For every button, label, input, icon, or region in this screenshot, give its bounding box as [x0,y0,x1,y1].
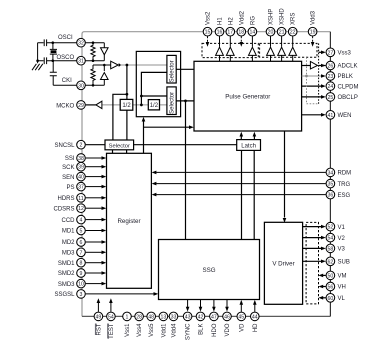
svg-text:38: 38 [78,156,84,162]
svg-text:Vdd1: Vdd1 [161,323,167,338]
svg-text:CKI: CKI [62,78,72,84]
svg-text:37: 37 [78,185,84,191]
svg-text:CCD: CCD [62,218,76,224]
svg-text:SYNC: SYNC [186,323,192,340]
svg-text:Register: Register [117,218,140,225]
svg-text:52: 52 [328,225,334,231]
svg-text:ESG: ESG [338,193,351,199]
svg-text:Latch: Latch [241,144,256,150]
svg-text:OSCO: OSCO [57,55,75,61]
svg-text:54: 54 [328,236,334,242]
svg-text:33: 33 [171,314,177,320]
svg-text:19: 19 [310,30,316,36]
svg-text:VH: VH [338,285,346,291]
svg-text:12: 12 [78,206,84,212]
svg-text:MD2: MD2 [62,240,75,246]
svg-text:1/2: 1/2 [150,103,159,109]
svg-text:WEN: WEN [338,113,352,119]
svg-text:47: 47 [211,314,217,320]
svg-text:Vdd4: Vdd4 [172,323,178,338]
svg-text:30: 30 [78,83,84,89]
svg-text:VD: VD [239,323,245,332]
svg-text:56: 56 [328,285,334,291]
svg-text:HD: HD [253,323,259,332]
svg-text:28: 28 [136,314,142,320]
svg-text:42: 42 [198,314,204,320]
svg-text:39: 39 [78,165,84,171]
svg-text:Vss5: Vss5 [149,323,155,337]
svg-text:34: 34 [328,170,334,176]
svg-text:RDM: RDM [338,171,352,177]
svg-text:Vss4: Vss4 [137,323,143,337]
svg-text:Vdd2: Vdd2 [239,10,245,25]
svg-text:58: 58 [328,246,334,252]
svg-text:SSG: SSG [202,267,215,274]
svg-text:HDRS: HDRS [57,196,74,202]
svg-text:1: 1 [126,314,129,320]
svg-text:Pulse Generator: Pulse Generator [225,93,270,100]
svg-text:40: 40 [78,175,84,181]
svg-text:26: 26 [328,64,334,70]
svg-text:5: 5 [80,229,83,235]
svg-text:11: 11 [78,196,83,202]
svg-text:H2: H2 [228,17,234,25]
svg-text:MD3: MD3 [62,251,75,257]
svg-text:SSI: SSI [65,156,75,162]
svg-text:60: 60 [328,296,334,302]
svg-text:3: 3 [80,292,83,298]
svg-text:23: 23 [328,74,334,80]
svg-text:62: 62 [328,259,334,265]
svg-text:32: 32 [78,41,84,47]
svg-text:25: 25 [328,95,334,101]
svg-text:13: 13 [161,314,167,320]
svg-text:7: 7 [80,250,83,256]
svg-text:MCKO: MCKO [56,103,74,109]
svg-text:PS: PS [66,185,74,191]
svg-text:HDO: HDO [212,323,218,337]
svg-text:Vss3: Vss3 [338,51,352,57]
svg-text:PBLK: PBLK [338,74,353,80]
svg-text:6: 6 [80,240,83,246]
svg-text:48: 48 [148,314,154,320]
svg-text:14: 14 [250,30,256,36]
svg-text:BLK: BLK [199,324,205,335]
svg-text:21: 21 [279,30,285,36]
svg-text:SMD1: SMD1 [58,261,75,267]
svg-text:15: 15 [205,30,211,36]
svg-text:MD1: MD1 [62,229,75,235]
svg-text:V Driver: V Driver [272,261,294,268]
svg-text:XSHP: XSHP [269,9,275,25]
svg-text:54: 54 [108,314,114,320]
svg-text:24: 24 [328,84,334,90]
svg-text:CDSRS: CDSRS [53,206,74,212]
svg-text:50: 50 [328,273,334,279]
svg-text:Vss1: Vss1 [125,323,131,337]
svg-text:43: 43 [185,314,191,320]
svg-text:44: 44 [252,314,258,320]
svg-text:TEST: TEST [109,323,115,339]
svg-text:45: 45 [238,314,244,320]
svg-text:1/2: 1/2 [122,103,131,109]
svg-text:Selector: Selector [170,92,176,114]
svg-text:31: 31 [78,59,84,65]
svg-text:Vss2: Vss2 [206,11,212,25]
svg-text:SMD2: SMD2 [58,271,75,277]
svg-text:XSHD: XSHD [280,8,286,25]
svg-text:20: 20 [268,30,274,36]
svg-text:V2: V2 [338,236,346,242]
svg-text:17: 17 [227,30,233,36]
svg-text:RST: RST [96,323,102,335]
svg-text:46: 46 [224,314,230,320]
svg-text:TRG: TRG [338,182,351,188]
svg-text:49: 49 [96,314,102,320]
svg-text:4: 4 [80,218,83,224]
svg-text:18: 18 [238,30,244,36]
svg-text:Selector: Selector [109,143,130,149]
svg-text:2: 2 [80,143,83,149]
svg-text:SMD3: SMD3 [58,282,75,288]
svg-text:V1: V1 [338,225,346,231]
svg-text:9: 9 [80,271,83,277]
svg-text:41: 41 [328,113,334,119]
svg-text:SUB: SUB [338,260,350,266]
svg-text:10: 10 [78,282,84,288]
svg-text:SNCSL: SNCSL [54,143,75,149]
svg-text:29: 29 [78,103,84,109]
svg-text:OBCLP: OBCLP [338,95,358,101]
svg-text:VM: VM [338,274,347,280]
svg-text:RG: RG [250,16,256,25]
svg-text:VL: VL [338,296,346,302]
svg-text:SEN: SEN [62,175,74,181]
svg-text:OSCI: OSCI [58,35,73,41]
svg-text:CLPDM: CLPDM [338,84,359,90]
svg-text:35: 35 [328,182,334,188]
svg-text:SCK: SCK [62,165,74,171]
svg-text:8: 8 [80,261,83,267]
svg-text:V3: V3 [338,247,346,253]
svg-text:27: 27 [328,50,334,56]
svg-text:36: 36 [328,193,334,199]
svg-text:SSGSL: SSGSL [54,292,75,298]
svg-text:Vdd3: Vdd3 [311,10,317,25]
svg-text:16: 16 [217,30,223,36]
svg-text:XRS: XRS [291,13,297,25]
svg-text:22: 22 [290,30,296,36]
svg-text:Selector: Selector [170,60,176,82]
svg-text:VDO: VDO [225,323,231,336]
svg-text:H1: H1 [218,17,224,25]
svg-text:ADCLK: ADCLK [338,64,358,70]
